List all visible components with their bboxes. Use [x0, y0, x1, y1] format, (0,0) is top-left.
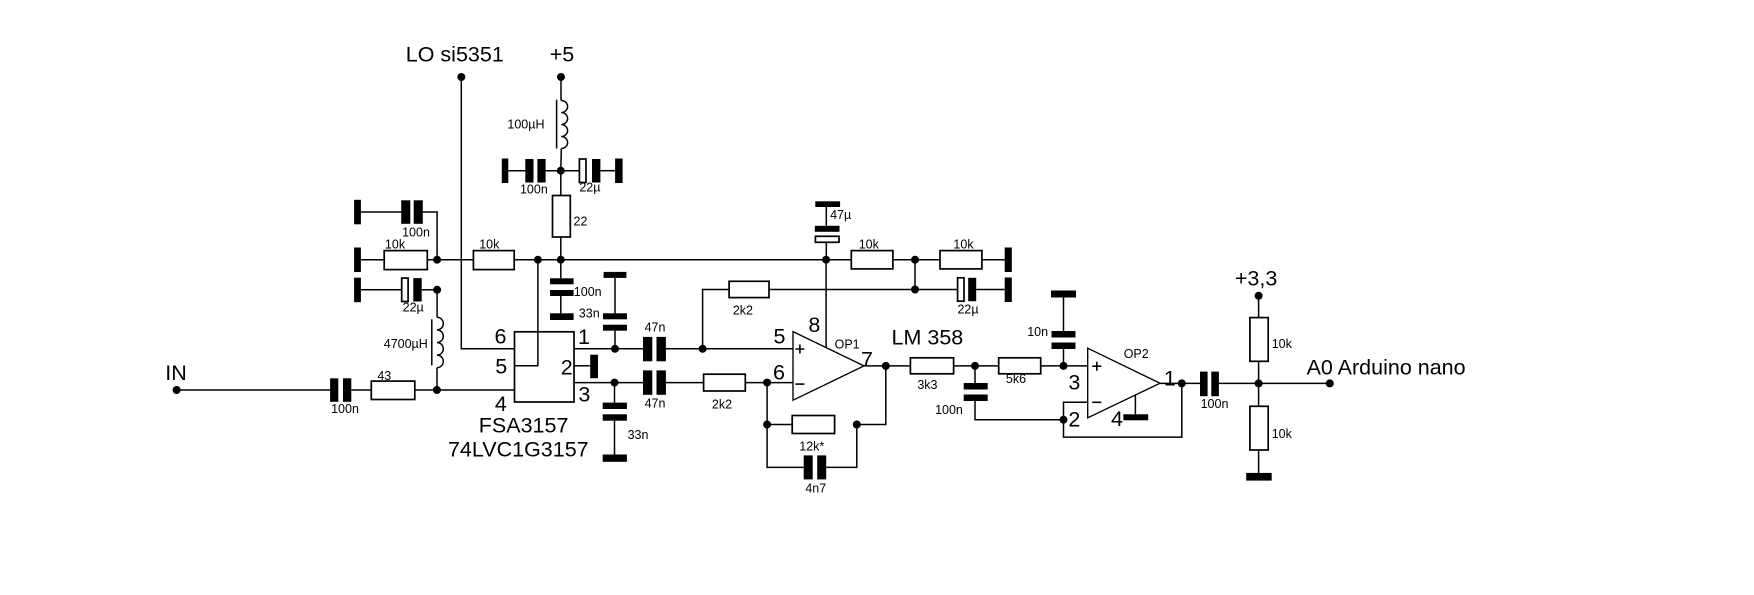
svg-text:3: 3: [578, 383, 590, 407]
node junction x537.9: [534, 256, 542, 264]
resistor 10k (bias divider a): [384, 237, 427, 269]
wire x437 down to coil: [436, 290, 438, 318]
svg-text:OP2: OP2: [1124, 347, 1149, 361]
node junction x437 y290: [433, 286, 441, 294]
node junction x1063.5: [1060, 362, 1068, 370]
svg-text:100n: 100n: [1201, 397, 1229, 411]
svg-text:7: 7: [861, 348, 873, 372]
node +3,3 terminal dot: [1255, 292, 1263, 300]
resistor 2k2 (minus input): [704, 374, 746, 411]
svg-text:5: 5: [495, 355, 507, 379]
svg-text:+5: +5: [550, 43, 575, 67]
node LO terminal dot: [457, 73, 465, 81]
svg-text:2: 2: [561, 355, 573, 379]
wire rail junction to 100n stack: [560, 260, 562, 279]
svg-text:1: 1: [578, 325, 590, 349]
resistor 43: [371, 369, 415, 400]
svg-text:22: 22: [574, 215, 588, 229]
wire 47n to 2k2: [666, 382, 704, 384]
node +5 terminal dot: [557, 73, 565, 81]
capacitor 47n (pin3 series): [643, 370, 666, 410]
inductor 4700uH: [384, 317, 444, 367]
capacitor 33n (pin3 shunt): [603, 383, 649, 442]
node junction x767 y424.5: [763, 421, 771, 429]
wire 10k to junction: [427, 259, 473, 261]
node junction x437 y260: [433, 256, 441, 264]
node junction op2 out: [1178, 379, 1186, 387]
wire 100n to A0: [1219, 382, 1330, 384]
wire 10k to 10k: [893, 259, 940, 261]
capacitor 47u electrolytic: [815, 207, 851, 242]
wire op2 out: [1160, 382, 1200, 384]
wire 33n to ground: [614, 421, 616, 455]
node junction pin1 x615: [611, 345, 619, 353]
wire A0 node to 10k bottom: [1258, 383, 1260, 406]
node junction x856.8 y424.5: [853, 421, 861, 429]
svg-text:10k: 10k: [1272, 337, 1293, 351]
node junction x1063.5 y419.7: [1060, 416, 1068, 424]
resistor 10k (divider bottom): [1250, 406, 1293, 450]
wire ground to 100n: [508, 170, 525, 172]
svg-text:5: 5: [774, 325, 786, 349]
ground bottom right: [1246, 473, 1272, 481]
svg-text:33n: 33n: [579, 307, 600, 321]
wire +5 down to inductor: [560, 77, 562, 101]
svg-text:A0 Arduino nano: A0 Arduino nano: [1307, 355, 1466, 379]
node junction x767.1: [763, 379, 771, 387]
node junction x915 y289.5: [911, 286, 919, 294]
ground right of bias 22u: [1005, 278, 1012, 303]
wire resistor 22 to +5 rail: [560, 237, 562, 260]
wire coil to IN rail: [436, 368, 438, 390]
wire IN to 100n: [177, 389, 331, 391]
capacitor 4n7: [804, 455, 827, 495]
capacitor 47n (pin1 series): [643, 320, 666, 361]
svg-text:4700µH: 4700µH: [384, 337, 428, 351]
svg-text:10k: 10k: [1272, 427, 1293, 441]
svg-text:47n: 47n: [645, 397, 666, 411]
wire pin5 from rail junction through box: [515, 260, 538, 366]
ground at pin2: [590, 355, 598, 379]
wire junction to resistor 22: [560, 171, 562, 196]
ground right of rail 10k: [1005, 248, 1012, 273]
svg-text:3: 3: [1068, 371, 1080, 395]
svg-text:6: 6: [495, 324, 507, 348]
svg-text:100n: 100n: [520, 182, 548, 196]
wire pin2 stub: [574, 365, 590, 367]
wire 22u to ground: [976, 289, 1005, 291]
ground right of top 22u: [615, 159, 623, 184]
wire riser to top 2k2: [703, 290, 730, 349]
svg-text:100µH: 100µH: [507, 117, 544, 131]
wire x767 riser minus input: [767, 383, 804, 468]
wire 5k6 to op2 plus: [1041, 365, 1088, 367]
wire rail y259.5 from 10k to 10k: [514, 259, 851, 261]
svg-text:43: 43: [377, 369, 391, 383]
op1 feedback wire down: [857, 366, 886, 425]
svg-text:LM 358: LM 358: [892, 326, 964, 350]
svg-text:10k: 10k: [479, 237, 500, 251]
wire ground to 100n (row212): [361, 211, 401, 213]
wire 10k to ground: [982, 259, 1005, 261]
node junction pin3 x614.5: [611, 379, 619, 387]
wire 100n to junction to 22u: [546, 170, 580, 172]
op-amp OP2: [1088, 347, 1160, 418]
svg-text:12k*: 12k*: [799, 440, 824, 454]
wire ground to 10k: [361, 259, 384, 261]
wire 100n to corner x437: [423, 212, 437, 260]
svg-text:47n: 47n: [645, 320, 666, 334]
node IN terminal dot: [173, 386, 181, 394]
wire pin8 down to op1: [825, 260, 827, 348]
wire 100n to op2 pin2 net: [975, 401, 1064, 420]
node A0 terminal dot: [1326, 379, 1334, 387]
op-amp OP1: [793, 332, 864, 401]
capacitor 22u electrolytic (top): [579, 159, 600, 194]
node junction x826 rail: [822, 256, 830, 264]
svg-text:10k: 10k: [953, 237, 974, 251]
op2 pin4 wire: [1134, 395, 1136, 414]
wire op1 out to 3k3: [864, 365, 910, 367]
svg-text:100n: 100n: [935, 403, 963, 417]
ground above 10n: [1051, 291, 1076, 298]
svg-text:100n: 100n: [574, 285, 602, 299]
resistor 10k (supply rail b): [940, 237, 982, 269]
wire 10k to ground: [1258, 450, 1260, 473]
wire 10k to A0 node: [1258, 361, 1260, 383]
capacitor 100n (bias row): [401, 200, 430, 239]
wire +3,3 to 10k: [1258, 296, 1260, 318]
wire 10n to junction: [1063, 349, 1065, 366]
svg-text:4: 4: [1111, 407, 1123, 431]
svg-text:+3,3: +3,3: [1235, 266, 1277, 290]
wire inductor to junction: [560, 149, 563, 171]
svg-text:1: 1: [1164, 367, 1176, 391]
wire ground to 22u: [361, 289, 402, 291]
inductor L1 100uH: [507, 100, 567, 149]
ground left of top 100n: [502, 159, 509, 184]
svg-text:5k6: 5k6: [1006, 372, 1026, 386]
wire pin3 to 47n: [574, 382, 643, 384]
svg-text:LO si5351: LO si5351: [406, 43, 504, 67]
svg-text:100n: 100n: [331, 402, 359, 416]
svg-text:10k: 10k: [385, 237, 406, 251]
ground below pin3 33n: [603, 455, 627, 462]
ground left of 22u (row y=290): [354, 278, 361, 303]
wire x915 link down: [914, 260, 916, 290]
op2 pin2 wire: [1064, 402, 1088, 419]
svg-text:33n: 33n: [628, 428, 649, 442]
wire 12k* to x767 riser: [767, 424, 792, 426]
svg-text:8: 8: [808, 313, 820, 337]
capacitor 100n (op2 minus): [935, 366, 988, 417]
svg-text:2k2: 2k2: [733, 304, 753, 318]
svg-text:47µ: 47µ: [830, 208, 851, 222]
node junction x437 y390: [433, 386, 441, 394]
svg-text:10n: 10n: [1027, 325, 1048, 339]
resistor 10k (divider top): [1250, 318, 1293, 362]
wire pin1 to 47n: [574, 348, 643, 350]
wire 22u to ground: [600, 170, 615, 172]
wire 3k3 to 5k6: [954, 365, 999, 367]
resistor 12k*: [792, 416, 834, 454]
node junction x1258.6: [1255, 379, 1263, 387]
resistor 10k (bias divider b): [473, 237, 514, 269]
svg-text:22µ: 22µ: [579, 180, 600, 194]
svg-text:10k: 10k: [859, 237, 880, 251]
wire 22u to junction: [422, 289, 437, 291]
capacitor 100n (input): [330, 378, 359, 416]
wire 100n to 43: [351, 389, 371, 391]
node junction x915 rail: [911, 256, 919, 264]
svg-text:2k2: 2k2: [712, 398, 732, 412]
wire 47u to rail: [825, 242, 827, 259]
svg-text:6: 6: [773, 361, 785, 385]
svg-text:74LVC1G3157: 74LVC1G3157: [448, 437, 589, 461]
svg-text:OP1: OP1: [835, 337, 860, 351]
ground at op2 pin4: [1123, 414, 1148, 420]
capacitor 10n: [1027, 298, 1075, 350]
resistor 3k3: [910, 358, 953, 392]
node junction x975: [971, 362, 979, 370]
capacitor 100n (output): [1200, 372, 1228, 411]
node junction op1 out: [882, 362, 890, 370]
node junction below inductor: [557, 167, 565, 175]
wire LO vertical down to FSA pin 6: [461, 77, 514, 349]
wire 33n to pin1 junction: [614, 331, 616, 349]
wire ground to 33n plates: [614, 278, 616, 313]
resistor 22: [553, 196, 588, 238]
ground above 47u: [815, 201, 840, 207]
svg-text:100n: 100n: [402, 226, 430, 240]
capacitor 100n (rail shunt): [550, 278, 602, 299]
resistor 2k2 (plus input bias): [729, 281, 769, 317]
wire bias rail y289.5: [769, 289, 958, 291]
resistor 10k (supply rail a): [851, 237, 893, 269]
ground above 33n (x615 top stack): [604, 272, 627, 278]
capacitor 33n (pin1 shunt): [579, 307, 627, 331]
svg-text:3k3: 3k3: [917, 378, 937, 392]
svg-text:2: 2: [1068, 408, 1080, 432]
svg-text:FSA3157: FSA3157: [479, 413, 569, 437]
svg-text:4n7: 4n7: [805, 481, 826, 495]
resistor 5k6: [999, 358, 1041, 386]
ground below 100n stack: [550, 313, 574, 320]
svg-text:4: 4: [495, 392, 507, 416]
wire 2k2 to op1 minus: [745, 382, 793, 384]
ground left of 10k (row y=260): [354, 248, 361, 273]
capacitor 22u electrolytic (bias): [402, 278, 424, 315]
wire 47n to op1 plus: [666, 348, 793, 350]
svg-text:22µ: 22µ: [957, 303, 978, 317]
svg-text:22µ: 22µ: [403, 301, 424, 315]
wire 4n7 to 12k* right: [826, 425, 857, 468]
capacitor 100n (top decoupling): [520, 159, 548, 196]
switch U1 FSA3157 box: [448, 332, 589, 462]
capacitor 22u electrolytic (bias rail): [957, 278, 978, 317]
op2 feedback loop: [1064, 383, 1182, 437]
svg-text:IN: IN: [165, 361, 187, 385]
node junction x702.6 pin5 row: [699, 345, 707, 353]
node junction x560.8: [557, 256, 565, 264]
wire 43 to FSA pin 4: [415, 389, 515, 391]
ground left of 10k bias (row y=212): [354, 200, 361, 225]
wire 100n to ground bar: [560, 296, 562, 313]
